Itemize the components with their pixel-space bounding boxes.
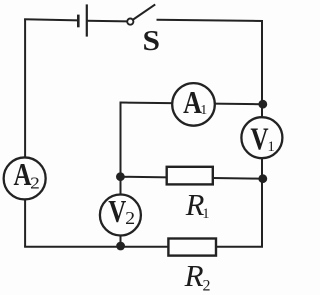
ammeter A2 <box>4 157 46 199</box>
wire: A1 branch horizontal <box>120 103 263 105</box>
svg-text:V: V <box>250 120 268 156</box>
svg-text:A: A <box>14 157 32 192</box>
wire: V2 branch vertical <box>120 177 122 247</box>
resistor R2 <box>168 239 216 256</box>
switch S blade (open) <box>133 4 155 19</box>
switch S pivot circle <box>127 19 133 25</box>
wire: switch fixed contact to top right corner <box>157 20 264 21</box>
junction node: A1/V1 top <box>258 100 267 109</box>
svg-text:R: R <box>184 258 204 293</box>
wire: left rail <box>24 19 26 247</box>
svg-text:1: 1 <box>200 103 207 118</box>
junction node: V2 bottom on bottom rail <box>116 242 125 251</box>
label R1 <box>185 188 210 222</box>
ammeter A1 <box>172 83 215 126</box>
svg-text:1: 1 <box>202 206 209 222</box>
svg-text:1: 1 <box>267 139 275 155</box>
svg-text:2: 2 <box>30 174 40 193</box>
junction node: V1 bottom / R1 right <box>258 174 267 183</box>
resistor R1 <box>167 167 213 185</box>
svg-text:V: V <box>108 193 126 229</box>
wire: right rail <box>261 20 263 247</box>
voltmeter V1 <box>241 117 282 158</box>
label R2 <box>184 258 211 294</box>
junction node: R1 left / V2 top <box>116 172 125 181</box>
battery cell: short plate (negative) <box>77 15 80 28</box>
wire: top left segment to battery <box>24 19 78 20</box>
svg-text:2: 2 <box>203 277 211 294</box>
wire: middle vertical (A1 branch down to node) <box>120 102 122 178</box>
svg-text:S: S <box>143 26 161 57</box>
wire: bottom rail <box>24 246 263 248</box>
label S <box>143 26 161 57</box>
battery cell: long plate (positive) <box>86 4 88 36</box>
wire: R1 branch horizontal <box>120 177 262 179</box>
voltmeter V2 <box>100 193 141 236</box>
wire: battery to switch pivot <box>87 20 128 23</box>
svg-text:2: 2 <box>125 208 135 228</box>
